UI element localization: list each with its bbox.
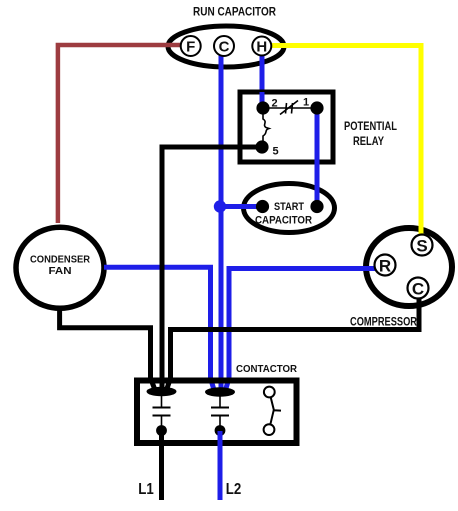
svg-text:C: C bbox=[412, 280, 424, 299]
terminal H of run capacitor bbox=[252, 37, 271, 56]
wire blue: run capacitor C down to contactor bbox=[219, 54, 224, 391]
compressor circle bbox=[366, 228, 452, 306]
wire black: compressor C to contactor bbox=[167, 296, 420, 390]
contactor right pole dot bbox=[215, 425, 226, 436]
svg-text:C: C bbox=[219, 39, 230, 56]
wire blue: contactor to compressor R bbox=[226, 269, 377, 391]
svg-text:5: 5 bbox=[272, 146, 278, 158]
relay terminal 5 dot bbox=[255, 140, 268, 153]
wire blue into compressor R bbox=[360, 266, 376, 271]
svg-text:CONTACTOR: CONTACTOR bbox=[236, 363, 297, 375]
svg-text:2: 2 bbox=[271, 98, 277, 110]
relay terminal 2 label bbox=[271, 98, 277, 110]
wire maroon: run capacitor F to condenser fan bbox=[58, 45, 185, 223]
wire black: L1 feed bbox=[159, 431, 164, 500]
contactor box bbox=[137, 381, 297, 444]
svg-text:FAN: FAN bbox=[49, 265, 72, 277]
terminal F of run capacitor bbox=[181, 36, 201, 56]
svg-text:L1: L1 bbox=[138, 481, 154, 498]
condenser fan circle bbox=[16, 227, 104, 308]
wire blue: relay 1 into start capacitor right terminal bbox=[315, 183, 320, 206]
wire yellow into compressor S bbox=[419, 222, 424, 235]
label POTENTIAL RELAY bbox=[344, 121, 397, 148]
wire yellow: run capacitor H to compressor S bbox=[270, 46, 421, 236]
run capacitor ellipse bbox=[168, 26, 284, 67]
terminal C of run capacitor bbox=[214, 36, 234, 56]
compressor terminal S bbox=[412, 235, 433, 256]
wire black from compressor C bbox=[417, 296, 422, 312]
node: blue junction on C wire bbox=[214, 200, 226, 212]
label START CAPACITOR bbox=[255, 201, 312, 227]
start capacitor right terminal dot bbox=[310, 200, 323, 213]
potential relay box bbox=[240, 92, 333, 162]
wire black: condenser fan bottom to contactor bbox=[60, 308, 155, 390]
label CONTACTOR bbox=[236, 363, 297, 375]
compressor terminal R bbox=[375, 255, 396, 276]
contactor left pole dot bbox=[156, 425, 167, 436]
relay terminal 2 dot bbox=[256, 101, 269, 114]
label L2 bbox=[226, 481, 242, 498]
wire blue: junction to start capacitor left terminal bbox=[220, 204, 262, 209]
label COMPRESSOR bbox=[350, 317, 418, 329]
relay contact symbol between 1 and 2 bbox=[269, 101, 311, 115]
relay terminal 5 label bbox=[272, 146, 278, 158]
label RUN CAPACITOR bbox=[193, 7, 277, 19]
svg-text:R: R bbox=[379, 257, 391, 276]
wire blue inside relay: terminal 2 drop bbox=[260, 92, 265, 106]
svg-text:H: H bbox=[256, 39, 267, 56]
svg-text:RUN CAPACITOR: RUN CAPACITOR bbox=[193, 7, 277, 19]
svg-text:CONDENSER: CONDENSER bbox=[30, 254, 90, 266]
svg-text:RELAY: RELAY bbox=[353, 136, 384, 148]
svg-text:1: 1 bbox=[303, 97, 309, 109]
svg-text:CAPACITOR: CAPACITOR bbox=[255, 215, 312, 227]
wire black: relay terminal 5 to contactor bbox=[162, 147, 256, 390]
wire blue: L2 feed bbox=[218, 431, 223, 500]
contactor left lug (filled ellipse) bbox=[147, 387, 177, 397]
start capacitor ellipse bbox=[244, 184, 335, 233]
relay coil squiggle between 2 and 5 bbox=[263, 114, 269, 141]
wire blue: run capacitor H to relay terminal 2 bbox=[260, 53, 265, 106]
svg-text:START: START bbox=[274, 201, 304, 213]
svg-text:COMPRESSOR: COMPRESSOR bbox=[350, 317, 418, 329]
svg-text:POTENTIAL: POTENTIAL bbox=[344, 121, 397, 133]
svg-text:L2: L2 bbox=[226, 481, 242, 498]
wire blue: relay terminal 1 to start capacitor bbox=[315, 110, 320, 205]
contactor right lug (filled ellipse) bbox=[205, 387, 235, 397]
compressor terminal C bbox=[408, 278, 429, 299]
label CONDENSER FAN bbox=[30, 254, 90, 278]
contactor left pole contact symbol bbox=[153, 394, 171, 428]
relay terminal 1 label bbox=[303, 97, 309, 109]
svg-text:S: S bbox=[416, 237, 427, 256]
svg-text:F: F bbox=[186, 39, 195, 56]
start capacitor left terminal dot bbox=[256, 200, 269, 213]
label L1 bbox=[138, 481, 154, 498]
wire blue: condenser fan to contactor bbox=[104, 267, 214, 390]
contactor auxiliary switch symbol bbox=[264, 387, 281, 435]
contactor right pole contact symbol bbox=[211, 395, 229, 429]
wire blue inside relay: terminal 1 drop bbox=[315, 110, 320, 165]
relay terminal 1 dot bbox=[310, 101, 323, 114]
